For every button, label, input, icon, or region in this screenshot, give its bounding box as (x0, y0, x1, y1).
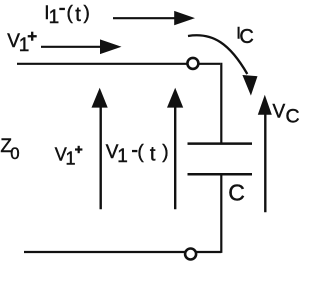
svg-text:(: ( (137, 142, 144, 163)
svg-text:C: C (286, 105, 300, 127)
svg-text:1: 1 (66, 149, 76, 169)
svg-text:1: 1 (49, 7, 60, 28)
svg-text:t: t (150, 144, 156, 166)
svg-text:1: 1 (19, 35, 30, 56)
svg-text:1: 1 (117, 146, 128, 167)
svg-text:(: ( (67, 3, 74, 24)
svg-text:t: t (75, 4, 81, 26)
svg-text:): ) (84, 3, 90, 24)
svg-text:): ) (162, 142, 168, 163)
svg-text:V: V (273, 102, 286, 123)
svg-text:0: 0 (10, 144, 19, 163)
svg-text:C: C (239, 26, 253, 48)
svg-text:C: C (228, 180, 245, 206)
